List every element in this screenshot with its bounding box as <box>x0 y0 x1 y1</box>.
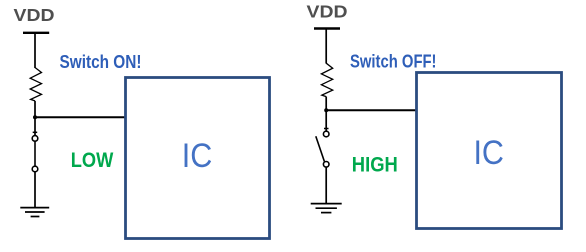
svg-text:IC: IC <box>473 134 504 172</box>
wire resistor to switch (left, through node) <box>34 101 36 136</box>
wire VDD bar to resistor (right) <box>325 29 327 64</box>
ground symbol (left) <box>20 208 49 217</box>
switch SW2 bottom contact (right) <box>323 162 329 168</box>
junction dot node B (right) <box>324 108 328 112</box>
junction dot node A (left) <box>33 115 37 119</box>
switch SW2 top contact (right) <box>323 131 329 137</box>
svg-text:VDD: VDD <box>14 5 55 25</box>
svg-text:VDD: VDD <box>307 2 348 22</box>
switch SW1 bottom contact (left) <box>32 166 38 172</box>
svg-text:IC: IC <box>182 137 213 175</box>
connector end tick (right) <box>324 128 329 130</box>
IC U2 box (right) <box>417 73 562 229</box>
IC U1 box (left) <box>126 78 270 239</box>
wire VDD bar to resistor (left) <box>34 33 36 68</box>
connector end tick (left) <box>33 131 38 133</box>
wire switch to ground (left) <box>34 172 36 207</box>
resistor R1 (pull-up, left) <box>30 68 41 101</box>
switch SW1 top contact (left) <box>32 136 38 142</box>
power rail VDD bar (right) <box>314 27 340 29</box>
resistor R2 (pull-up, right) <box>321 63 332 96</box>
wire node A to IC input (left horizontal) <box>35 116 125 118</box>
svg-text:HIGH: HIGH <box>352 154 398 177</box>
switch SW1 lever closed (left) <box>34 141 36 166</box>
svg-text:Switch OFF!: Switch OFF! <box>350 51 437 71</box>
svg-text:LOW: LOW <box>71 149 114 172</box>
switch SW2 lever open (right) <box>316 136 325 161</box>
svg-text:Switch ON!: Switch ON! <box>60 52 142 72</box>
wire switch to ground (right) <box>325 167 327 203</box>
wire node B to IC input (right horizontal) <box>326 109 416 111</box>
ground symbol (right) <box>311 204 342 213</box>
power rail VDD bar (left) <box>23 32 49 34</box>
wire resistor to switch (right, through node) <box>325 97 327 132</box>
